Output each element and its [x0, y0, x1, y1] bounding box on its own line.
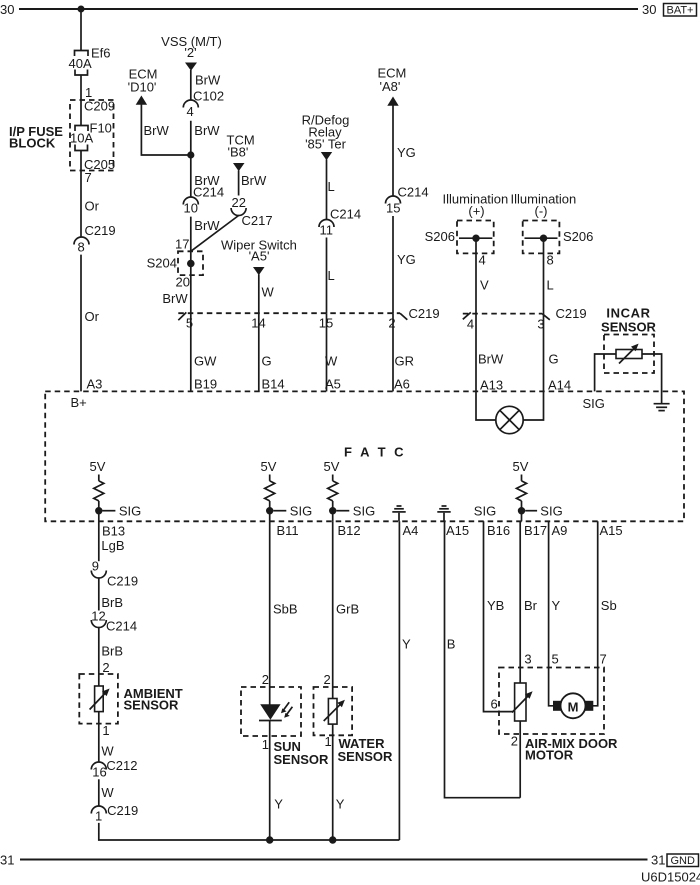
- svg-text:G: G: [262, 354, 272, 369]
- svg-text:2: 2: [102, 660, 109, 675]
- svg-text:5: 5: [552, 652, 559, 667]
- svg-text:A9: A9: [552, 523, 568, 538]
- connector C219 pin 1: [91, 803, 138, 824]
- connector C219 pin 9: [91, 559, 138, 589]
- wire color BrW: [241, 173, 267, 188]
- pin 2 label: [262, 672, 269, 687]
- tick at pin 5: [178, 312, 186, 320]
- svg-text:S206: S206: [563, 229, 593, 244]
- Illumination (+) label: [443, 192, 509, 219]
- svg-text:SENSOR: SENSOR: [338, 749, 394, 764]
- svg-text:B16: B16: [487, 523, 510, 538]
- connector C214 pin 10: [183, 185, 224, 216]
- connector C212 pin 16: [91, 758, 137, 780]
- SIG label B12: [353, 504, 375, 519]
- svg-text:'A8': 'A8': [380, 79, 401, 94]
- water sensor dashed box: [314, 687, 353, 735]
- wire: incar sensor to ground: [642, 354, 662, 403]
- connector label C205: [84, 157, 115, 172]
- svg-text:Y: Y: [336, 797, 345, 812]
- drawing number U6D15024: [641, 870, 700, 885]
- SIG label B17: [540, 504, 562, 519]
- FATC name: [344, 445, 406, 460]
- wire: wiper switch to C219: [258, 275, 260, 314]
- wire color BrW: [194, 123, 220, 138]
- lamp: illumination bulb: [496, 406, 523, 433]
- wire: C102 to junction: [190, 121, 192, 197]
- pin B11 label: [277, 523, 299, 538]
- pin 2 label: [388, 316, 395, 331]
- svg-text:10A: 10A: [70, 131, 93, 146]
- wire color B: [447, 637, 456, 652]
- pin B19 label: [194, 377, 217, 392]
- ambient sensor dashed box: [79, 674, 118, 724]
- wire: C214 to ambient sensor: [98, 628, 100, 687]
- Wiper Switch source label: [221, 238, 297, 264]
- svg-text:A15: A15: [446, 523, 469, 538]
- svg-text:6: 6: [490, 697, 497, 712]
- pin 2 label: [102, 660, 109, 675]
- svg-text:BrW: BrW: [162, 291, 188, 306]
- svg-text:W: W: [262, 285, 275, 300]
- fuse Ef6 40A: [69, 46, 111, 76]
- svg-text:3: 3: [537, 317, 544, 332]
- svg-text:5V: 5V: [324, 459, 340, 474]
- wire: S206 (+) to FATC pin A13: [475, 238, 477, 391]
- pin A4 label: [403, 523, 419, 538]
- I/P FUSE BLOCK label: [9, 124, 63, 151]
- tick at pin 4: [463, 312, 471, 319]
- svg-text:20: 20: [176, 275, 190, 290]
- pin A14 label: [548, 378, 571, 393]
- wire color W: [325, 354, 338, 369]
- svg-text:1: 1: [325, 734, 332, 749]
- svg-text:YG: YG: [397, 145, 416, 160]
- svg-text:BrW: BrW: [241, 173, 267, 188]
- svg-text:W: W: [101, 744, 114, 759]
- SIG label B13: [119, 504, 141, 519]
- svg-text:8: 8: [547, 253, 554, 268]
- svg-text:A15: A15: [600, 523, 623, 538]
- svg-text:C102: C102: [193, 89, 224, 104]
- connector C214 pin 15: [386, 185, 429, 216]
- wire: B16 to potentiometer wiper pin 6: [484, 521, 513, 711]
- svg-text:3: 3: [524, 652, 531, 667]
- wire: potentiometer to pin 2: [519, 721, 521, 798]
- pin 8 label: [547, 253, 554, 268]
- svg-text:SIG: SIG: [353, 504, 375, 519]
- wire color G: [262, 354, 272, 369]
- wire: to FATC pin A6: [392, 313, 394, 391]
- pin 1 label: [262, 737, 269, 752]
- svg-text:15: 15: [319, 316, 333, 331]
- ground: incar sensor: [654, 404, 670, 411]
- wire: C217 diagonal to splice S204: [191, 216, 239, 252]
- svg-text:(-): (-): [535, 204, 548, 219]
- wire: C219 to signal return bus: [99, 823, 400, 840]
- pin B12 label: [338, 523, 361, 538]
- pin B16 label: [487, 523, 510, 538]
- pin B14 label: [262, 377, 285, 392]
- TCM source label: [227, 133, 255, 160]
- svg-text:BLOCK: BLOCK: [9, 136, 56, 151]
- incar sensor dashed box: [604, 335, 654, 374]
- pin 2 label: [324, 672, 331, 687]
- wire color BrW: [162, 291, 188, 306]
- wire: S206 (-) to FATC pin A14: [543, 238, 545, 391]
- svg-text:Or: Or: [85, 199, 100, 214]
- svg-text:14: 14: [251, 316, 265, 331]
- wire color BrB: [101, 595, 123, 610]
- wire: A4 to signal return bus: [398, 521, 400, 840]
- svg-text:BrW: BrW: [195, 73, 221, 88]
- pin A9 label: [552, 523, 568, 538]
- net tag GND: [667, 854, 699, 867]
- wire: branch to ECM D10: [141, 105, 190, 156]
- svg-text:C219: C219: [556, 306, 587, 321]
- svg-text:10: 10: [184, 201, 198, 216]
- pin B13 label: [102, 524, 125, 539]
- wire color Y: [336, 797, 345, 812]
- svg-text:G: G: [549, 352, 559, 367]
- wire color SbB: [273, 602, 298, 617]
- svg-text:LgB: LgB: [101, 538, 124, 553]
- wire: S206 (-) internal: [525, 237, 558, 239]
- svg-text:'A5': 'A5': [249, 249, 270, 264]
- splice S206 (+) dashed box: [457, 221, 494, 254]
- svg-text:SIG: SIG: [540, 504, 562, 519]
- wire color G: [549, 352, 559, 367]
- wire color Or: [85, 309, 100, 324]
- svg-text:16: 16: [92, 765, 106, 780]
- svg-text:8: 8: [78, 240, 85, 255]
- wire: A15 to potentiometer pin 2: [445, 521, 521, 797]
- svg-text:YB: YB: [487, 598, 504, 613]
- connector C219 label: [409, 306, 440, 321]
- wire color L: [328, 268, 335, 283]
- svg-text:B14: B14: [262, 377, 285, 392]
- pin 4 label: [479, 253, 486, 268]
- arrow from R/Defog relay: [321, 152, 332, 160]
- wire: to FATC pin A5: [326, 313, 328, 391]
- WATER SENSOR label: [338, 736, 394, 764]
- svg-text:BrB: BrB: [101, 644, 123, 659]
- wire: ECM A8 to C214: [392, 106, 394, 197]
- node: BrW junction: [187, 151, 194, 158]
- connector C219 multi-pin line 2: [463, 313, 542, 315]
- svg-text:SIG: SIG: [583, 396, 605, 411]
- svg-text:4: 4: [187, 104, 194, 119]
- splice S204 label: [147, 256, 177, 271]
- pin A5 label: [325, 377, 341, 392]
- wire: B13 to C219: [98, 521, 100, 561]
- wire: C219 to C214: [98, 578, 100, 611]
- pin 2 label: [511, 734, 518, 749]
- wire: ambient sensor to C212: [98, 712, 100, 762]
- pin A15 label: [600, 523, 623, 538]
- svg-text:INCAR: INCAR: [606, 306, 650, 321]
- svg-text:W: W: [101, 785, 114, 800]
- svg-text:SIG: SIG: [119, 504, 141, 519]
- svg-text:5V: 5V: [513, 459, 529, 474]
- pin 20 label: [176, 275, 190, 290]
- node: B11 SIG junction: [266, 507, 286, 514]
- water sensor thermistor: [324, 699, 345, 725]
- wire color V: [480, 278, 489, 293]
- svg-text:17: 17: [175, 237, 189, 252]
- svg-text:5V: 5V: [261, 459, 277, 474]
- svg-text:M: M: [568, 700, 579, 715]
- svg-text:SENSOR: SENSOR: [124, 698, 180, 713]
- net tag BAT+: [664, 4, 697, 17]
- pin 4 label: [467, 317, 474, 332]
- svg-text:BrW: BrW: [478, 352, 504, 367]
- svg-text:40A: 40A: [69, 56, 92, 71]
- wire: C214 down through S204 to C219: [190, 217, 192, 314]
- pin A3 label: [87, 377, 103, 392]
- pin A6 label: [394, 377, 410, 392]
- splice S206 (-) dashed box: [523, 221, 560, 254]
- svg-text:F A T C: F A T C: [344, 445, 406, 460]
- node: splice S204 junction: [187, 260, 195, 268]
- wire color W: [101, 785, 114, 800]
- air-mix door motor dashed box: [499, 668, 604, 735]
- splice S206 (-) label: [563, 229, 593, 244]
- I/P fuse block dashed box: [70, 100, 114, 171]
- wire color Y: [552, 598, 561, 613]
- arrow from TCM: [233, 163, 245, 171]
- wire color LgB: [101, 538, 124, 553]
- svg-text:B12: B12: [338, 523, 361, 538]
- wire color YG: [397, 145, 416, 160]
- svg-text:BAT+: BAT+: [666, 5, 693, 17]
- svg-text:1: 1: [262, 737, 269, 752]
- svg-text:22: 22: [232, 195, 246, 210]
- pin 1 label: [102, 723, 109, 738]
- svg-text:A5: A5: [325, 377, 341, 392]
- svg-text:(+): (+): [468, 204, 484, 219]
- svg-text:C214: C214: [106, 619, 137, 634]
- wire color Sb: [601, 598, 617, 613]
- svg-text:GND: GND: [670, 855, 695, 867]
- svg-text:C219: C219: [85, 223, 116, 238]
- svg-text:C219: C219: [409, 306, 440, 321]
- wire color GR: [395, 354, 415, 369]
- pin A15 label: [446, 523, 469, 538]
- svg-text:15: 15: [386, 201, 400, 216]
- wire: B11 to sun sensor: [269, 521, 271, 704]
- tick at pin 3: [542, 314, 550, 320]
- wire: A13 to lamp: [476, 391, 496, 420]
- SIG label B11: [290, 504, 312, 519]
- svg-text:A14: A14: [548, 378, 571, 393]
- svg-text:GR: GR: [395, 354, 415, 369]
- R/Defog Relay source label: [302, 113, 350, 152]
- svg-text:B17: B17: [524, 523, 547, 538]
- ground: FATC A4 internal: [392, 506, 405, 521]
- svg-text:GrB: GrB: [336, 602, 359, 617]
- svg-text:9: 9: [92, 559, 99, 574]
- svg-text:L: L: [328, 179, 335, 194]
- svg-text:C217: C217: [242, 213, 273, 228]
- svg-text:Sb: Sb: [601, 598, 617, 613]
- SUN SENSOR label: [274, 739, 330, 767]
- svg-text:4: 4: [467, 317, 474, 332]
- connector C217 pin 22: [231, 195, 272, 228]
- ambient sensor thermistor: [90, 686, 110, 712]
- pin B17 label: [524, 523, 547, 538]
- svg-text:YG: YG: [397, 252, 416, 267]
- node: water sensor return junction: [329, 836, 336, 843]
- 5V pull-up for B13: [90, 459, 106, 521]
- wire color BrW: [478, 352, 504, 367]
- svg-text:MOTOR: MOTOR: [525, 748, 574, 763]
- wire: water sensor to signal return bus: [332, 724, 334, 840]
- pin 5 label: [552, 652, 559, 667]
- sun sensor dashed box: [241, 687, 301, 736]
- wire: A15 to motor pin 7: [593, 521, 598, 706]
- pin 7 label: [85, 170, 92, 185]
- svg-text:12: 12: [91, 608, 105, 623]
- INCAR SENSOR label: [601, 306, 657, 335]
- wire: GW to FATC pin B19: [190, 313, 192, 391]
- svg-text:C214: C214: [398, 185, 429, 200]
- svg-text:5: 5: [186, 316, 193, 331]
- svg-text:11: 11: [320, 223, 334, 238]
- wire: incar sensor to FATC SIG: [595, 354, 616, 391]
- svg-text:L: L: [547, 278, 554, 293]
- AMBIENT SENSOR label: [124, 686, 183, 713]
- pin 1 label: [325, 734, 332, 749]
- svg-text:C214: C214: [330, 207, 361, 222]
- wire: C219 to FATC pin A3: [80, 255, 82, 392]
- connector C219 label: [556, 306, 587, 321]
- wire: bus to fuse Ef6: [80, 9, 82, 51]
- arrow to ECM A8: [387, 97, 398, 106]
- wire color GW: [194, 354, 217, 369]
- wire color Y: [274, 797, 283, 812]
- svg-text:SIG: SIG: [290, 504, 312, 519]
- pin 7 label: [600, 652, 607, 667]
- svg-text:Ef6: Ef6: [91, 46, 111, 61]
- svg-text:A13: A13: [480, 378, 503, 393]
- wire: power bus 30: [19, 8, 638, 10]
- node: S206 (-) junction: [540, 235, 547, 242]
- node: bus junction at fuse branch: [78, 6, 85, 13]
- svg-text:S204: S204: [147, 256, 177, 271]
- 5V pull-up for B11: [261, 459, 277, 521]
- wire: C212 to C219: [98, 779, 100, 806]
- svg-text:V: V: [480, 278, 489, 293]
- svg-text:2: 2: [324, 672, 331, 687]
- svg-text:30: 30: [642, 2, 656, 17]
- svg-text:C212: C212: [106, 758, 137, 773]
- svg-text:'D10': 'D10': [128, 80, 157, 95]
- wire color YG: [397, 252, 416, 267]
- ECM A8 destination label: [378, 66, 407, 95]
- connector C219 multi-pin line 1: [178, 312, 400, 314]
- connector C214 pin 12: [91, 608, 137, 633]
- svg-text:B+: B+: [71, 395, 87, 410]
- svg-text:SENSOR: SENSOR: [601, 320, 657, 335]
- svg-text:C214: C214: [193, 185, 224, 200]
- svg-text:L: L: [328, 268, 335, 283]
- pin 3 label: [537, 317, 544, 332]
- node: B12 SIG junction: [329, 507, 349, 514]
- wire: fuse Ef6 to fuse F10: [80, 75, 82, 126]
- svg-text:7: 7: [600, 652, 607, 667]
- node: B13 SIG junction: [95, 507, 115, 514]
- wire: ground bus 31: [20, 858, 648, 860]
- wire: TCM to C217: [238, 171, 240, 196]
- AIR-MIX DOOR MOTOR label: [525, 736, 618, 763]
- splice S206 (+) label: [425, 229, 455, 244]
- FATC unit dashed box: [45, 391, 684, 521]
- svg-text:A4: A4: [403, 523, 419, 538]
- wire color W: [262, 285, 275, 300]
- svg-text:5V: 5V: [90, 459, 106, 474]
- wire color Br: [524, 598, 538, 613]
- svg-text:U6D15024: U6D15024: [641, 870, 700, 885]
- wire color BrW: [195, 73, 221, 88]
- svg-text:S206: S206: [425, 229, 455, 244]
- node: sun sensor return junction: [266, 836, 273, 843]
- pin 14 label: [251, 316, 265, 331]
- svg-text:A6: A6: [394, 377, 410, 392]
- wire color YB: [487, 598, 504, 613]
- 5V pull-up for B12: [324, 459, 340, 521]
- svg-text:2: 2: [388, 316, 395, 331]
- sun sensor photodiode: [259, 702, 292, 720]
- splice S204 dashed box: [178, 251, 203, 275]
- pin 5 label: [186, 316, 193, 331]
- node: B17 SIG junction: [518, 507, 537, 514]
- connector C219 pin 8: [74, 223, 116, 255]
- wire: relay to C214: [326, 160, 328, 220]
- SIG label incar: [583, 396, 605, 411]
- pin 3 label: [524, 652, 531, 667]
- svg-text:BrW: BrW: [194, 218, 220, 233]
- svg-text:31: 31: [0, 853, 14, 868]
- connector label C209: [84, 99, 115, 114]
- svg-text:Y: Y: [402, 637, 411, 652]
- motor M1: [553, 693, 593, 718]
- svg-text:B19: B19: [194, 377, 217, 392]
- svg-text:W: W: [325, 354, 338, 369]
- tick at pin 2: [400, 313, 407, 320]
- pin 1 label: [85, 85, 92, 100]
- wire: to FATC pin B14: [258, 313, 260, 391]
- 5V pull-up for B17: [513, 459, 529, 521]
- connector C102 pin 4: [183, 89, 224, 120]
- wire: F10 down to connector C219: [80, 151, 82, 238]
- svg-text:GW: GW: [194, 354, 217, 369]
- svg-text:B13: B13: [102, 524, 125, 539]
- svg-text:7: 7: [85, 170, 92, 185]
- SIG label B16: [474, 504, 496, 519]
- svg-text:A3: A3: [87, 377, 103, 392]
- wire color BrW: [144, 123, 170, 138]
- wire: B12 to water sensor: [332, 521, 334, 698]
- svg-text:2: 2: [262, 672, 269, 687]
- wire: VSS to C102: [190, 70, 192, 100]
- arrow to ECM D10: [136, 96, 147, 105]
- net label B+: [71, 395, 87, 410]
- wire: S206 (+) internal: [459, 237, 492, 239]
- node: S206 (+) junction: [472, 235, 479, 242]
- wire: A9 to motor pin 5: [549, 521, 554, 706]
- wire color L: [328, 179, 335, 194]
